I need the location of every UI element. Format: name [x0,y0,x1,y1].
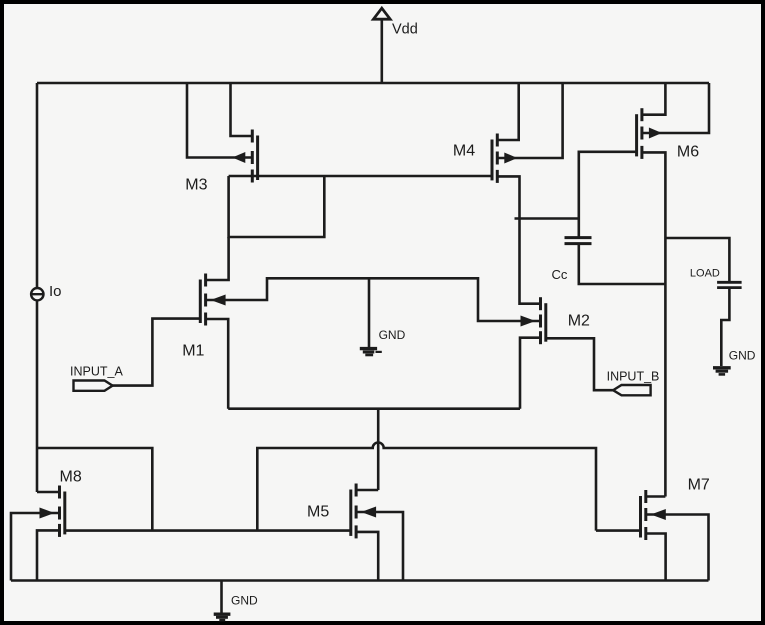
transistor M5 [349,490,352,536]
wire bottom ground stub [220,581,223,614]
svg-text:M3: M3 [185,177,207,194]
wire M4 bulk to rail [497,83,562,158]
wire Cc bottom to output [579,244,666,284]
wire M6 bulk to rail [642,83,709,133]
wire M4 drain down [497,176,540,303]
wire M2 source down [520,338,541,409]
wire M3 diode loop [229,176,325,237]
wire M7 gate [596,529,641,532]
transistor M7 [639,496,642,538]
ground load GND symbol [713,366,731,369]
wire M7 drain to output [646,495,666,498]
wire M1 gate [112,319,199,386]
wire M3 bulk to rail [187,83,252,158]
wire M1 source down [206,319,229,409]
wire M5 source down [356,532,378,581]
transistor M8 [63,492,66,535]
wire M4 source to rail [497,83,518,140]
svg-text:INPUT_A: INPUT_A [70,365,123,379]
svg-text:M2: M2 [568,313,590,330]
wire M3 source to rail [231,83,253,136]
svg-text:Cc: Cc [552,267,568,282]
wire M8 drain [37,491,60,494]
wire source bus [228,407,520,410]
wire bulk to ground [368,278,371,347]
Vdd symbol [380,19,383,83]
node first-stage output [515,217,579,220]
svg-text:INPUT_B: INPUT_B [607,370,660,384]
wire tail down [377,409,380,490]
svg-text:GND: GND [231,594,258,608]
svg-text:Vdd: Vdd [392,22,418,38]
capacitor Cc [565,236,592,239]
wire M8 bulk to ground rail [11,513,60,581]
wire M6 source to rail [642,83,666,115]
svg-text:GND: GND [379,328,406,342]
wire M8-M5 gate line [65,529,351,532]
svg-text:LOAD: LOAD [690,268,720,280]
wire M3-M4 gate line [229,175,493,178]
wire M1 bulk link [206,278,541,321]
terminal INPUT_B [613,385,651,395]
transistor M1 [199,280,202,324]
wire M7 source down [646,534,666,581]
ground bottom GND symbol [214,613,231,616]
svg-text:M6: M6 [677,144,699,161]
transistor M4 [491,140,494,181]
ground middle GND symbol [360,347,377,350]
svg-text:GND: GND [729,349,756,363]
svg-text:M7: M7 [688,477,710,494]
wire M6 drain output [642,152,666,496]
current source Io [31,288,43,300]
wire M8 source down [37,530,60,580]
wire M7 bulk down [646,515,709,581]
wire top rail Vdd [37,82,709,85]
wire M6 gate [579,152,637,238]
svg-text:M8: M8 [60,469,82,486]
wire M2 gate to input [546,338,613,390]
svg-text:M4: M4 [453,143,475,160]
transistor M3 [256,136,259,181]
wire M5 drain to tail [356,489,378,492]
wire M1 drain up [206,237,229,280]
wire left rail [36,83,39,492]
wire bottom rail [11,579,709,582]
capacitor LOAD [717,281,742,284]
wire load tap [665,238,729,282]
terminal INPUT_A [74,381,113,391]
transistor M6 [635,114,638,156]
wire bias bus left [37,448,152,531]
svg-text:M1: M1 [182,343,204,360]
wire load cap to ground [721,288,729,366]
svg-text:M5: M5 [307,504,329,521]
wire bias bus right with hop [257,443,596,531]
svg-text:Io: Io [49,283,62,300]
transistor M2 [544,303,547,342]
wire M5 bulk down [356,512,403,581]
